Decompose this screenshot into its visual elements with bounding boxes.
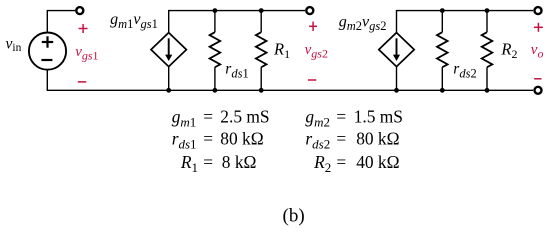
- svg-text:=: =: [203, 152, 213, 172]
- wire: diamond1 bottom: [168, 67, 170, 91]
- svg-text:=: =: [336, 152, 346, 172]
- wire: input top from source to terminal: [47, 11, 75, 33]
- wire: stage2 top rail: [397, 11, 534, 33]
- red + (vo): [534, 23, 543, 32]
- junction: R2 bottom: [485, 88, 490, 93]
- svg-text:2.5 mS: 2.5 mS: [220, 106, 269, 126]
- voltage source Vin (independent source symbol): [29, 33, 66, 70]
- junction: R2 top: [485, 8, 490, 13]
- red - (vo): [534, 78, 541, 80]
- junction: rds1 top: [213, 8, 218, 13]
- resistor rds1 (zigzag): [210, 11, 221, 91]
- terminal: output bottom: [535, 87, 542, 94]
- svg-text:80 kΩ: 80 kΩ: [356, 129, 399, 149]
- wire: diamond2 bottom: [396, 67, 398, 91]
- resistor R1 (zigzag): [256, 11, 267, 91]
- red + (vgs2): [309, 22, 317, 31]
- resistor R2 (zigzag): [482, 11, 493, 91]
- red - (vgs1): [78, 81, 87, 83]
- junction: rds2 top: [440, 8, 445, 13]
- red - (vgs2): [308, 79, 316, 81]
- junction: rds1 bottom: [213, 88, 218, 93]
- terminal: input port node (open circle): [76, 7, 83, 14]
- wire: source bottom to ground rail: [46, 70, 48, 91]
- resistor rds2 (zigzag): [437, 11, 448, 91]
- svg-text:=: =: [336, 106, 346, 126]
- svg-text:8 kΩ: 8 kΩ: [222, 152, 257, 172]
- junction: source2 bottom: [394, 88, 399, 93]
- junction: rds2 bottom: [440, 88, 445, 93]
- wire: bottom ground rail: [47, 89, 534, 91]
- svg-text:(b): (b): [283, 205, 305, 226]
- svg-text:=: =: [203, 106, 213, 126]
- svg-text:=: =: [203, 129, 213, 149]
- wire: stage1 top rail: [169, 11, 305, 33]
- dependent current source G1 = gm1*vgs1 (diamond with down arrow): [151, 33, 186, 67]
- junction: source1 bottom: [166, 88, 171, 93]
- junction: R1 top: [259, 8, 264, 13]
- svg-text:80 kΩ: 80 kΩ: [220, 129, 263, 149]
- dependent current source G2 = gm2*vgs2 (diamond with down arrow): [379, 33, 414, 67]
- svg-text:=: =: [336, 129, 346, 149]
- svg-text:1.5 mS: 1.5 mS: [354, 106, 403, 126]
- junction: R1 bottom: [259, 88, 264, 93]
- svg-text:40 kΩ: 40 kΩ: [356, 152, 399, 172]
- red + (vgs1): [79, 24, 88, 33]
- terminal: stage2 gate node: [306, 7, 313, 14]
- terminal: output top: [535, 7, 542, 14]
